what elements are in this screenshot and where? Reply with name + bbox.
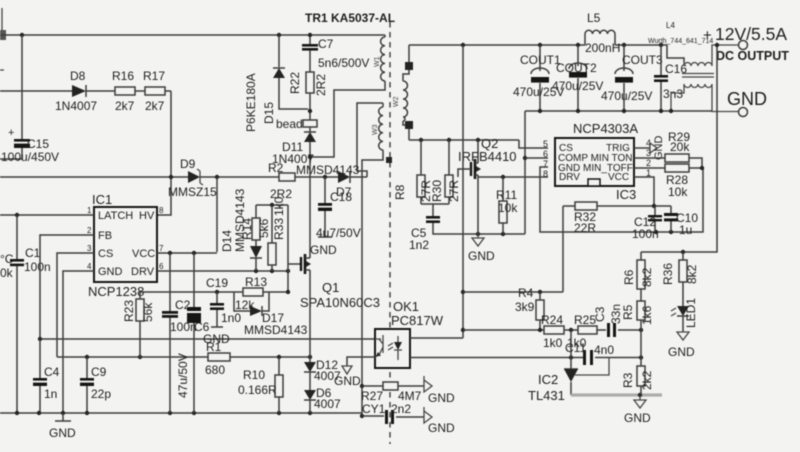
svg-text:2k2: 2k2 — [640, 370, 654, 390]
svg-text:2: 2 — [646, 158, 651, 168]
transformer primary W1 — [312, 35, 385, 157]
wire: VCC line — [157, 252, 217, 254]
svg-text:R4: R4 — [518, 286, 534, 300]
svg-text:200nH: 200nH — [585, 41, 620, 55]
GND flag right of R27 — [424, 376, 455, 405]
resistor R8 27R — [393, 140, 433, 204]
svg-text:8: 8 — [543, 169, 548, 179]
resistor R14 5k6 + diode D14 — [220, 188, 271, 271]
svg-text:DC OUTPUT: DC OUTPUT — [716, 49, 789, 63]
svg-text:GND: GND — [624, 411, 651, 425]
wire: TL431 line y=357.5 — [410, 357, 641, 359]
transistor Q1 SPA10N60C3 — [300, 252, 380, 310]
gate network top bar — [256, 204, 288, 206]
capacitor C6 47u/50V column — [176, 253, 210, 413]
svg-text:R3: R3 — [621, 372, 635, 388]
svg-text:470u/25V: 470u/25V — [601, 89, 652, 103]
svg-text:3k9: 3k9 — [515, 300, 535, 314]
GND arrow below LED1 — [668, 332, 695, 359]
wire: DRV / source line y=177 — [478, 176, 548, 178]
wire: opto feedback line A — [40, 338, 375, 340]
resistor R6 8k2 — [622, 260, 654, 289]
resistor R11 10k — [496, 177, 518, 234]
svg-text:R6: R6 — [622, 269, 636, 285]
wire: VCC tap from aux line — [216, 177, 218, 252]
svg-text:27R: 27R — [447, 180, 461, 202]
diode D6 4007 — [304, 386, 341, 413]
wire: TL431 anode gray line — [571, 393, 662, 396]
wire: Q1 source down — [309, 274, 311, 357]
transformer secondary W2 — [393, 45, 413, 140]
svg-text:IC3: IC3 — [616, 187, 636, 202]
svg-text:R24: R24 — [541, 313, 563, 327]
svg-text:GND: GND — [668, 345, 695, 359]
resistor R1 680 — [205, 340, 230, 377]
resistor R30 27R — [430, 140, 461, 204]
wire: LATCH line — [0, 214, 94, 216]
wire: TRIG to GND flag — [634, 147, 650, 149]
resistor R5 1k6 — [621, 301, 654, 325]
svg-text:+: + — [703, 27, 712, 44]
node: top rail / C15 junction — [20, 33, 24, 37]
wire: primary bottom ground rail — [0, 413, 424, 417]
svg-text:LED1: LED1 — [684, 298, 698, 328]
capacitor C11 4n0 — [565, 341, 614, 365]
LED LED1 — [671, 298, 698, 332]
wire: divider column R6 R5 R3 — [640, 252, 642, 395]
resistor R10 0.166R — [238, 357, 283, 413]
svg-text:L4: L4 — [666, 21, 675, 30]
IC3 NCP4303A — [543, 121, 651, 202]
resistor R23 56k — [122, 292, 155, 358]
svg-text:IRFB4410: IRFB4410 — [458, 149, 517, 164]
IC1 NCP1238 — [87, 192, 164, 299]
+12V output terminal — [703, 24, 789, 63]
capacitor COUT2 470u/25V — [552, 45, 603, 111]
isolation dashed line — [389, 22, 391, 444]
svg-text:R30: R30 — [430, 180, 444, 202]
TVS D15 P6KE180A branch — [277, 33, 281, 37]
resistor R24 1k0 — [541, 313, 564, 350]
svg-text:GND: GND — [468, 249, 495, 263]
svg-text:R36: R36 — [661, 263, 675, 285]
svg-text:1n2: 1n2 — [409, 238, 429, 252]
svg-text:R11: R11 — [496, 188, 517, 202]
capacitor C9 22p — [80, 357, 111, 413]
svg-text:20k: 20k — [670, 140, 690, 154]
resistor R33 1k0 — [268, 196, 286, 271]
wire: R6 top feed line y=252 — [641, 45, 717, 252]
svg-text:470u/25V: 470u/25V — [552, 79, 603, 93]
svg-text:DRV: DRV — [559, 172, 580, 183]
ferrite bead — [276, 117, 317, 131]
wire: primary top rail — [0, 34, 385, 36]
wire: R23/C19/R13 line y=292 — [140, 291, 288, 293]
wire: snubber column x=310 — [309, 35, 311, 252]
resistor R32 22R — [574, 202, 597, 235]
GND flag right of CY1 — [424, 407, 455, 435]
svg-text:10k: 10k — [668, 185, 688, 199]
resistor R29 20k — [634, 130, 702, 168]
wire: DRV line — [157, 270, 288, 272]
svg-text:1u: 1u — [679, 223, 692, 237]
wire: R24/R25 junction drop — [570, 330, 572, 358]
wire: current sense line B — [57, 356, 310, 358]
capacitor C18 4u7/50V — [310, 177, 361, 257]
wire: gate tap to Q1 — [288, 263, 301, 265]
svg-text:8k2: 8k2 — [685, 264, 699, 284]
svg-text:GND: GND — [653, 136, 665, 161]
GND output terminal — [727, 89, 767, 117]
capacitor C2 100n column — [162, 253, 197, 413]
svg-text:8k2: 8k2 — [640, 267, 654, 287]
resistor R13 12k with D17 loop — [234, 275, 308, 337]
diode D11 1N4007 — [272, 132, 316, 166]
svg-text:10k: 10k — [498, 201, 518, 215]
transformer aux winding W3 — [362, 103, 383, 416]
svg-text:VCC: VCC — [608, 172, 629, 183]
svg-text:1k0: 1k0 — [543, 336, 563, 350]
resistor R3 2k2 — [621, 366, 654, 390]
capacitor C7 5n6/500V — [302, 37, 369, 70]
zener D9 MMSZ15 — [168, 157, 217, 199]
wire: CS jog — [519, 140, 548, 148]
left edge cut ticks — [0, 8, 4, 70]
wire: GND drop x=525 — [524, 111, 526, 234]
svg-text:GND: GND — [727, 89, 767, 109]
svg-text:4n0: 4n0 — [594, 343, 614, 357]
resistor R25 1k0 — [567, 313, 597, 350]
wire: mains line with D8 R16 R17 — [0, 91, 171, 215]
capacitor COUT1 470u/25V — [513, 45, 564, 111]
svg-text:C3: C3 — [593, 306, 607, 322]
wire: secondary ground rail y=111 — [525, 110, 712, 112]
svg-text:100n: 100n — [632, 227, 659, 241]
resistor R17 2k7 — [143, 69, 165, 113]
svg-text:TL431: TL431 — [528, 388, 565, 403]
capacitor CY1 2n2 — [362, 402, 411, 424]
wire: +12V feed drop x=463 — [410, 45, 463, 338]
svg-text:NCP4303A: NCP4303A — [573, 121, 638, 136]
svg-text:5: 5 — [543, 139, 548, 149]
wire: +12V top rail — [409, 44, 667, 46]
resistor R27 4M7 line — [362, 385, 424, 387]
capacitor C10 1u — [664, 206, 698, 237]
capacitor C15 — [1, 127, 59, 164]
diode D7 MMSD4143 — [296, 163, 360, 199]
choke L4 — [648, 21, 738, 112]
capacitor C19 1n0 — [203, 276, 241, 346]
inductor L5 200nH — [585, 11, 620, 55]
wire: C15 column — [0, 35, 22, 159]
resistor R22 2R2 — [288, 72, 328, 96]
wire: CS line down to sense line B — [57, 253, 94, 357]
wire: VCC pin drop — [634, 177, 654, 206]
ground symbol main rail — [49, 413, 76, 440]
capacitor C5 1n2 — [409, 204, 525, 252]
wire: W2 bottom switched line y=140 — [409, 139, 519, 141]
capacitor C12 100n — [632, 206, 662, 241]
svg-text:COUT3: COUT3 — [622, 53, 663, 67]
wire: feedback upper line y=292 — [463, 291, 563, 293]
GND arrow below R3 — [624, 395, 651, 425]
wire: comp drop to feedback — [562, 206, 564, 292]
wire: IC3 GND loop — [540, 167, 703, 232]
resistor R16 2k7 — [112, 69, 135, 113]
gate column x=288 — [287, 205, 289, 292]
svg-text:R5: R5 — [621, 304, 635, 320]
wire: FB line down to opto line A — [40, 235, 94, 339]
svg-text:COUT1: COUT1 — [520, 53, 561, 67]
stray terminal pad — [386, 157, 392, 163]
optocoupler OK1 PC817W — [375, 299, 444, 368]
capacitor C4 1n — [33, 339, 60, 413]
svg-text:1k6: 1k6 — [640, 305, 654, 325]
capacitor C16 3n3 — [654, 45, 687, 111]
diode D8 1N4007 — [55, 69, 97, 113]
resistor R36 8k2 + LED1 — [661, 252, 699, 306]
svg-text:R8: R8 — [393, 184, 407, 200]
top-left corner dark blob — [0, 30, 6, 40]
wire: comp line y=206 — [563, 205, 671, 207]
svg-text:C11: C11 — [565, 341, 586, 355]
wire: IC1 GND to bottom rail — [63, 271, 94, 413]
resistor R4 3k9 — [515, 286, 544, 330]
svg-text:IC2: IC2 — [538, 372, 558, 387]
resistor R2 2R2 — [268, 161, 295, 201]
resistor R28 10k — [634, 164, 704, 199]
GND arrow Q2 source — [468, 234, 495, 263]
capacitor COUT3 470u/25V — [601, 45, 663, 111]
capacitor C3 33n — [593, 304, 623, 337]
shunt reg IC2 TL431 — [528, 358, 609, 404]
wire: COMP stub — [525, 157, 548, 159]
wire: D9 aux line y=177 — [0, 103, 383, 177]
svg-text:L5: L5 — [587, 11, 601, 25]
transistor Q2 IRFB4410 — [458, 136, 517, 234]
svg-text:COUT2: COUT2 — [556, 61, 597, 75]
wire: divider line y=330 — [463, 329, 641, 331]
diode D12 4007 — [304, 357, 341, 390]
svg-text:3n3: 3n3 — [663, 87, 683, 101]
OK1 emitter ground — [334, 357, 375, 388]
svg-text:12V/5.5A: 12V/5.5A — [715, 24, 787, 44]
capacitor C1 100n — [10, 215, 51, 413]
svg-text:22R: 22R — [574, 221, 596, 235]
